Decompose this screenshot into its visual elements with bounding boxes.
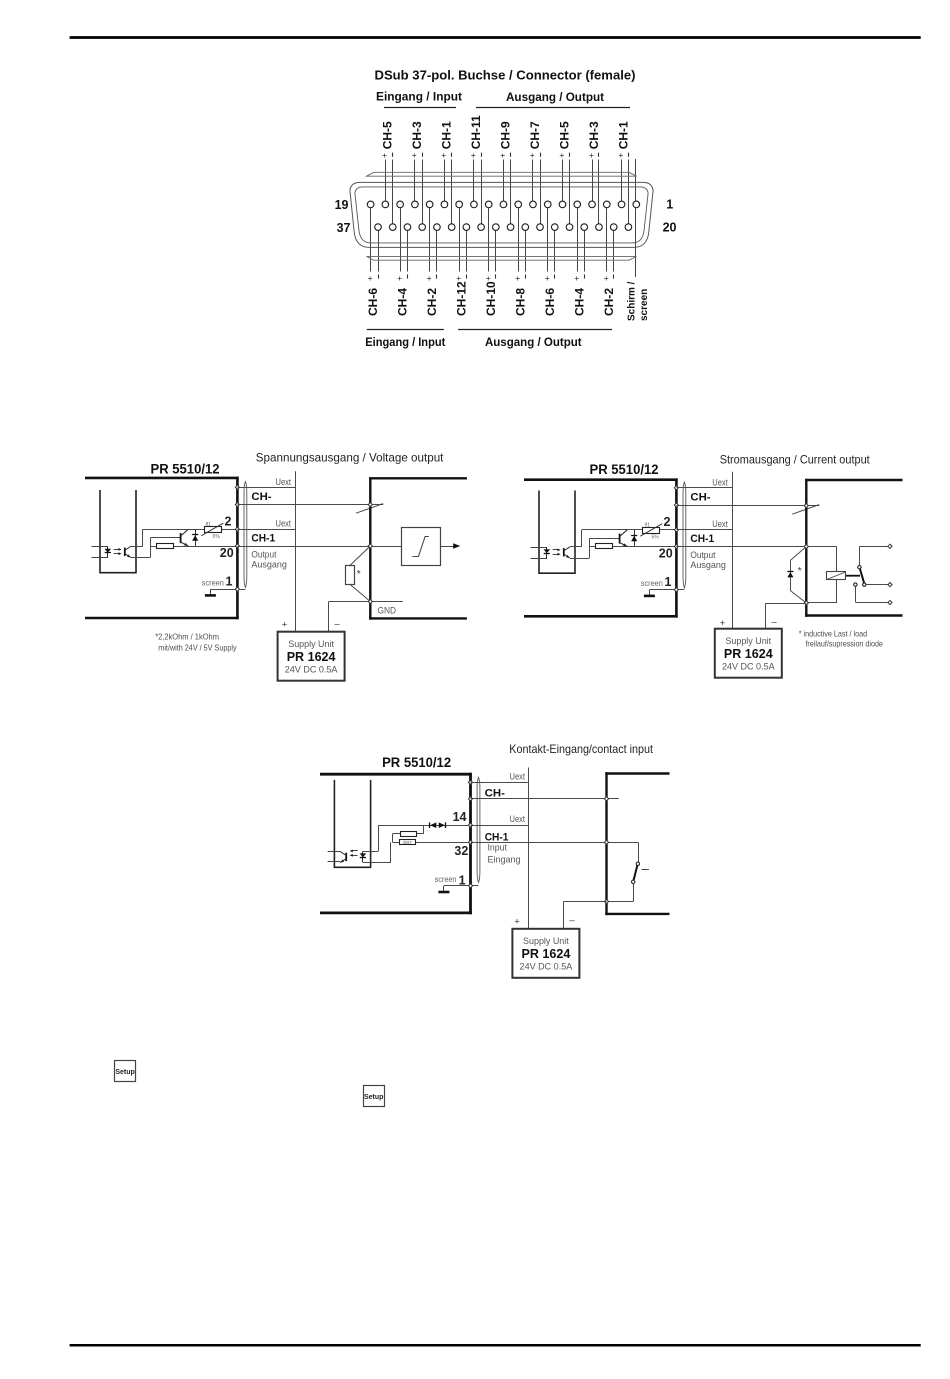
svg-text:*: *: [357, 569, 361, 580]
svg-text:+: +: [589, 150, 594, 160]
svg-text:CH-2: CH-2: [425, 288, 439, 316]
svg-text:Uext: Uext: [510, 814, 526, 824]
svg-text:20: 20: [663, 221, 677, 235]
svg-text:Uext: Uext: [276, 519, 292, 529]
svg-text:CH-3: CH-3: [587, 121, 601, 149]
svg-text:CH-12: CH-12: [455, 281, 469, 316]
svg-text:Supply Unit: Supply Unit: [288, 639, 334, 649]
svg-text:ϑ1: ϑ1: [645, 523, 651, 529]
svg-text:+: +: [427, 273, 432, 283]
svg-text:screen: screen: [435, 874, 457, 884]
svg-text:1: 1: [665, 575, 672, 589]
svg-text:Supply Unit: Supply Unit: [523, 936, 569, 946]
svg-text:Input: Input: [488, 843, 508, 853]
svg-text:Ausgang / Output: Ausgang / Output: [485, 335, 582, 349]
svg-text:Output: Output: [251, 549, 276, 559]
svg-text:14: 14: [453, 810, 467, 824]
svg-text:–: –: [569, 915, 575, 926]
svg-text:–: –: [334, 619, 340, 630]
svg-text:20: 20: [659, 547, 673, 561]
svg-text:+: +: [720, 618, 726, 629]
svg-text:CH-6: CH-6: [366, 288, 380, 316]
svg-text:5%: 5%: [213, 534, 221, 540]
svg-text:2: 2: [664, 515, 671, 529]
svg-text:CH-10: CH-10: [484, 281, 498, 316]
svg-text:Supply Unit: Supply Unit: [725, 636, 771, 646]
svg-text:1: 1: [666, 198, 673, 212]
svg-text:24V DC 0.5A: 24V DC 0.5A: [285, 665, 338, 676]
svg-text:screen: screen: [639, 289, 650, 321]
svg-text:PR 1624: PR 1624: [522, 946, 572, 961]
svg-text:CH-1: CH-1: [690, 533, 714, 545]
svg-text:DSub 37-pol. Buchse / Connecto: DSub 37-pol. Buchse / Connector (female): [375, 68, 636, 83]
svg-text:+: +: [368, 273, 373, 283]
svg-text:CH-7: CH-7: [528, 121, 542, 149]
svg-text:freilauf/supression diode: freilauf/supression diode: [805, 639, 883, 649]
svg-text:CH-5: CH-5: [380, 121, 394, 149]
svg-text:CH-3: CH-3: [410, 121, 424, 149]
svg-text:Uext: Uext: [712, 519, 728, 529]
svg-text:+: +: [604, 273, 609, 283]
svg-text:19: 19: [335, 198, 349, 212]
svg-text:Uext: Uext: [276, 477, 292, 487]
svg-text:CH-8: CH-8: [514, 288, 528, 316]
svg-text:+: +: [618, 150, 623, 160]
svg-text:37: 37: [337, 221, 351, 235]
svg-text:screen: screen: [202, 577, 224, 587]
svg-text:1: 1: [226, 574, 233, 588]
svg-text:Uext: Uext: [510, 772, 526, 782]
svg-text:Eingang: Eingang: [488, 854, 521, 864]
svg-text:CH-4: CH-4: [396, 288, 410, 316]
svg-text:Kontakt-Eingang/contact input: Kontakt-Eingang/contact input: [509, 742, 653, 756]
svg-text:CH-11: CH-11: [469, 115, 483, 149]
svg-text:Schirm /: Schirm /: [626, 281, 637, 321]
svg-text:Ausgang: Ausgang: [251, 560, 287, 570]
svg-text:ϑ1: ϑ1: [206, 522, 212, 528]
svg-text:PR 5510/12: PR 5510/12: [151, 461, 220, 476]
svg-text:CH-: CH-: [485, 787, 506, 799]
svg-text:Setup: Setup: [115, 1069, 134, 1076]
svg-text:Ausgang / Output: Ausgang / Output: [506, 90, 604, 104]
svg-text:2k97: 2k97: [403, 840, 413, 845]
svg-text:Ausgang: Ausgang: [690, 560, 726, 570]
svg-text:CH-5: CH-5: [558, 121, 572, 149]
svg-text:+: +: [456, 273, 461, 283]
svg-text:PR 5510/12: PR 5510/12: [382, 755, 451, 770]
svg-text:CH-1: CH-1: [485, 831, 509, 843]
svg-text:+: +: [514, 917, 520, 928]
svg-text:+: +: [441, 150, 446, 160]
svg-text:+: +: [397, 273, 402, 283]
svg-text:mit/with 24V / 5V Supply: mit/with 24V / 5V Supply: [158, 643, 237, 653]
svg-text:24V DC 0.5A: 24V DC 0.5A: [520, 962, 573, 973]
svg-text:GND: GND: [378, 606, 397, 616]
svg-text:20: 20: [220, 546, 234, 560]
svg-text:PR 1624: PR 1624: [724, 646, 774, 661]
svg-text:PR 1624: PR 1624: [287, 649, 337, 664]
svg-text:5%: 5%: [652, 534, 660, 540]
svg-text:Eingang / Input: Eingang / Input: [376, 90, 462, 104]
svg-text:+: +: [530, 150, 535, 160]
svg-text:+: +: [412, 150, 417, 160]
svg-text:Setup: Setup: [364, 1094, 383, 1101]
svg-text:CH-: CH-: [251, 491, 272, 503]
svg-text:Stromausgang / Current output: Stromausgang / Current output: [720, 453, 871, 467]
svg-text:+: +: [282, 620, 288, 631]
svg-text:+: +: [382, 150, 387, 160]
svg-text:+: +: [500, 150, 505, 160]
svg-text:CH-2: CH-2: [602, 288, 616, 316]
svg-text:CH-1: CH-1: [251, 533, 275, 545]
svg-text:–: –: [771, 616, 777, 627]
svg-text:CH-6: CH-6: [543, 288, 557, 316]
svg-text:*: *: [798, 566, 802, 577]
svg-text:24V DC 0.5A: 24V DC 0.5A: [722, 662, 775, 673]
svg-text:Output: Output: [690, 550, 715, 560]
svg-text:screen: screen: [641, 578, 663, 588]
svg-text:32: 32: [454, 844, 468, 858]
svg-text:*2,2kOhm / 1kOhm: *2,2kOhm / 1kOhm: [155, 632, 219, 642]
svg-text:+: +: [574, 273, 579, 283]
svg-text:* inductive Last / load: * inductive Last / load: [799, 629, 868, 639]
svg-text:CH-9: CH-9: [498, 121, 512, 149]
svg-text:+: +: [515, 273, 520, 283]
svg-text:Spannungsausgang / Voltage out: Spannungsausgang / Voltage output: [256, 450, 444, 464]
svg-text:+: +: [486, 273, 491, 283]
svg-text:+: +: [471, 150, 476, 160]
svg-text:2: 2: [225, 514, 232, 528]
svg-text:Eingang / Input: Eingang / Input: [365, 335, 445, 349]
svg-text:+: +: [559, 150, 564, 160]
svg-text:CH-1: CH-1: [617, 121, 631, 149]
svg-text:Uext: Uext: [712, 477, 728, 487]
svg-text:CH-: CH-: [690, 492, 711, 504]
svg-text:CH-4: CH-4: [573, 288, 587, 316]
svg-text:CH-1: CH-1: [439, 121, 453, 149]
svg-text:PR 5510/12: PR 5510/12: [590, 462, 659, 477]
svg-text:+: +: [545, 273, 550, 283]
